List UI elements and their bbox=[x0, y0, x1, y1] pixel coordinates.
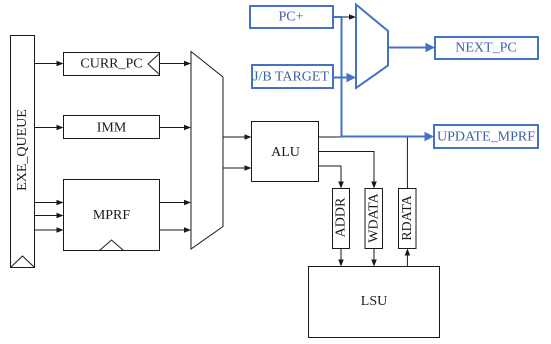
register file MPRF bbox=[64, 180, 160, 251]
svg-text:CURR_PC: CURR_PC bbox=[80, 57, 142, 72]
wire ALU to WDATA bbox=[319, 152, 377, 189]
blue box J/B TARGET bbox=[252, 65, 333, 88]
wire CURR_PC to mux M1 bbox=[160, 61, 192, 67]
wire EXE_QUEUE to IMM bbox=[35, 125, 64, 131]
wire ALU to blue junction (update path) bbox=[319, 136, 342, 138]
wire EXE_QUEUE to CURR_PC bbox=[35, 61, 64, 67]
wire WDATA to LSU bbox=[371, 249, 377, 267]
queue EXE_QUEUE bbox=[11, 36, 35, 268]
wire ALU to ADDR bbox=[319, 166, 344, 189]
svg-text:NEXT_PC: NEXT_PC bbox=[455, 41, 516, 56]
blue wire PC+ out bbox=[333, 16, 343, 18]
wire IMM to mux M1 bbox=[160, 125, 192, 131]
wire LSU to RDATA bbox=[405, 249, 411, 267]
svg-text:LSU: LSU bbox=[361, 294, 387, 309]
blue wire mux M2 to NEXT_PC bbox=[388, 43, 435, 52]
wire RDATA up to blue wire bbox=[406, 137, 408, 189]
alu ALU bbox=[252, 122, 319, 182]
wire EXE_QUEUE to MPRF 2 bbox=[35, 213, 64, 219]
wire junction to mux M2 (black arrow) bbox=[343, 14, 357, 20]
wire EXE_QUEUE to MPRF 1 bbox=[35, 200, 64, 206]
svg-text:ADDR: ADDR bbox=[334, 197, 349, 237]
svg-text:IMM: IMM bbox=[97, 121, 127, 136]
blue box PC+ bbox=[250, 6, 333, 28]
buffer WDATA bbox=[365, 189, 383, 249]
svg-text:MPRF: MPRF bbox=[93, 208, 131, 223]
buffer RDATA bbox=[399, 189, 417, 249]
blue wire J/B TARGET to mux M2 bbox=[333, 73, 356, 82]
blue wire vertical trunk bbox=[341, 16, 343, 137]
svg-text:EXE_QUEUE: EXE_QUEUE bbox=[15, 109, 30, 191]
wire mux M1 to ALU a bbox=[223, 134, 252, 140]
svg-text:WDATA: WDATA bbox=[367, 192, 382, 242]
wire EXE_QUEUE to MPRF 3 bbox=[35, 227, 64, 233]
svg-text:PC+: PC+ bbox=[278, 10, 303, 25]
blue wire to UPDATE_MPRF bbox=[341, 132, 435, 141]
mux M2 (next-pc mux, blue) bbox=[356, 5, 388, 89]
register IMM bbox=[64, 116, 160, 139]
svg-text:J/B TARGET: J/B TARGET bbox=[253, 70, 329, 85]
svg-text:RDATA: RDATA bbox=[400, 194, 415, 240]
blue box NEXT_PC bbox=[435, 37, 538, 59]
unit LSU bbox=[309, 267, 440, 338]
wire MPRF to mux M1 a bbox=[160, 200, 192, 206]
wire ADDR to LSU bbox=[338, 249, 344, 267]
blue box UPDATE_MPRF bbox=[434, 125, 538, 148]
wire mux M1 to ALU b bbox=[223, 165, 252, 171]
svg-text:UPDATE_MPRF: UPDATE_MPRF bbox=[437, 130, 535, 145]
wire MPRF to mux M1 b bbox=[160, 227, 192, 233]
svg-text:ALU: ALU bbox=[271, 145, 300, 160]
register CURR_PC bbox=[64, 53, 160, 76]
buffer ADDR bbox=[333, 189, 350, 249]
mux M1 (operand mux) bbox=[191, 52, 223, 250]
